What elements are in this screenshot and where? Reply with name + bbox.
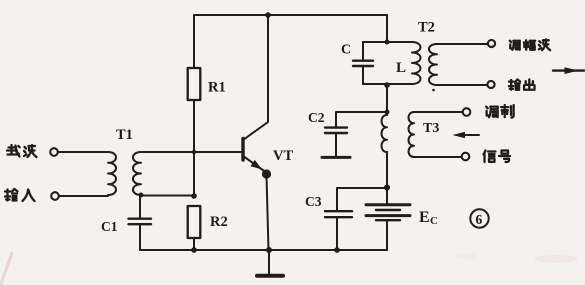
terminal carrier input top [50, 148, 58, 156]
capacitor C tank left branch [362, 42, 364, 60]
wire input top lead [58, 151, 108, 153]
wire R2 bottom lead [193, 238, 195, 250]
wire collector drop from rail [243, 15, 268, 140]
node C2 branch junction [385, 110, 390, 115]
battery Ec [386, 188, 388, 205]
transformer T1 primary winding [108, 152, 116, 195]
svg-text:L: L [396, 60, 406, 76]
transistor VT base bar [241, 139, 244, 161]
figure number 6 circled [470, 209, 488, 227]
resistor R2 [188, 206, 201, 238]
resistor R1 [188, 68, 201, 100]
svg-text:R1: R1 [208, 80, 226, 96]
node emitter junction blob [262, 169, 271, 178]
svg-text:C2: C2 [308, 110, 325, 125]
transformer T1 secondary winding [133, 152, 141, 195]
capacitor C3 [336, 188, 338, 211]
wire emitter down to rail [267, 176, 269, 250]
svg-text:C3: C3 [305, 194, 322, 209]
transistor VT emitter [243, 156, 265, 172]
svg-text:T1: T1 [116, 127, 133, 143]
wire T2 secondary top lead [437, 43, 488, 45]
arrow AM output direction [553, 69, 584, 71]
tank top bar [363, 41, 412, 43]
wire R1 bottom to divider node [193, 100, 195, 196]
wire input bottom lead [59, 195, 108, 197]
transformer T2 secondary winding [429, 44, 437, 85]
wire T3 primary bottom to battery [386, 152, 388, 188]
node base-wire crossing [192, 150, 196, 154]
node tank top [385, 40, 390, 45]
terminal AM out bottom [487, 81, 494, 88]
terminal modulation bottom [462, 153, 470, 161]
ground [268, 250, 270, 275]
terminal AM out top [488, 40, 495, 47]
wire C2 node branch [336, 111, 387, 113]
arrow modulation input direction [457, 134, 479, 136]
capacitor C1 [139, 196, 141, 219]
svg-text:T2: T2 [418, 20, 435, 36]
wire top supply rail [194, 15, 387, 68]
wire tank bottom down [386, 84, 388, 115]
terminal modulation top [463, 108, 471, 116]
svg-text:6: 6 [476, 212, 483, 227]
wire T1 secondary bottom to R2 node [141, 195, 194, 197]
node collector rail junction [265, 12, 271, 18]
node T2 bottom speck [432, 89, 435, 92]
svg-text:E: E [419, 209, 430, 226]
svg-text:C: C [341, 43, 351, 58]
transformer T3 primary winding [382, 115, 387, 152]
terminal carrier input bottom [51, 192, 59, 200]
decorative: none [1, 253, 578, 285]
wire T3 secondary top lead [414, 111, 463, 113]
label modulation (diao zhi) [486, 107, 498, 118]
svg-text:T3: T3 [423, 121, 439, 136]
node C3 bottom junction [334, 247, 340, 253]
inductor L / T2 primary winding [412, 42, 420, 84]
transistor VT emitter arrowhead [251, 160, 263, 170]
svg-text:C: C [430, 215, 438, 227]
label signal (xin hao) [484, 151, 496, 163]
node battery top junction [384, 185, 390, 191]
svg-text:C1: C1 [101, 219, 118, 234]
node emitter rail junction [266, 247, 272, 253]
tank bottom bar [363, 83, 412, 85]
label carrier (zai bo) [7, 145, 20, 157]
node R2 bottom junction [191, 247, 197, 253]
wire rail to tank top [386, 15, 388, 42]
transformer T3 secondary winding [409, 112, 414, 157]
wire T2 secondary bottom lead [437, 84, 487, 86]
wire bottom ground rail [140, 249, 387, 251]
wire C3 branch [337, 187, 387, 189]
node tank bottom [384, 82, 390, 88]
wire T1 secondary top to transistor base [141, 151, 242, 153]
node T1 secondary bottom / C1 top [139, 193, 144, 198]
wire T3 secondary bottom lead [414, 156, 462, 158]
label AM wave (diao fu bo) [510, 41, 520, 50]
svg-text:VT: VT [273, 148, 293, 164]
capacitor C2 [335, 112, 337, 127]
label input (shu ru) [5, 189, 18, 201]
node R2 top junction [191, 193, 197, 199]
label output (shu chu) [509, 79, 520, 89]
svg-text:R2: R2 [210, 214, 228, 230]
